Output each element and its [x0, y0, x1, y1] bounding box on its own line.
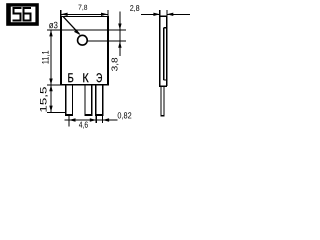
svg-text:15,5: 15,5	[38, 87, 48, 113]
dimension 4,6 / 0,82 line	[65, 119, 118, 121]
lead 3 (Э)	[96, 85, 103, 115]
svg-text:7,8: 7,8	[78, 3, 87, 12]
svg-text:0,82: 0,82	[117, 110, 131, 120]
lead 2 (К)	[85, 85, 92, 115]
lead bottom edges	[65, 114, 73, 116]
dimension 7,8 extension lines	[60, 10, 62, 16]
svg-text:Б: Б	[67, 70, 73, 85]
lead3 edge extensions below	[95, 115, 97, 123]
page number plate "56"	[6, 3, 39, 26]
side view lead	[161, 86, 164, 116]
svg-text:ø3: ø3	[49, 19, 58, 30]
package body front view	[60, 16, 109, 86]
package bottom edge over leads	[60, 84, 109, 86]
dimension 15,5 line	[50, 85, 52, 112]
lead1 center extension below	[68, 115, 70, 126]
side view inner step line	[164, 28, 167, 80]
tab boundary line across body (extended both sides)	[47, 29, 126, 31]
ø3 leader line with arrow to hole	[63, 16, 79, 34]
svg-text:3,8: 3,8	[109, 57, 119, 71]
svg-text:11,1: 11,1	[40, 50, 50, 64]
bottom edge extension line left	[47, 84, 61, 86]
svg-text:К: К	[82, 70, 89, 85]
lead end extension line	[47, 111, 66, 113]
dimension 7,8 line	[61, 14, 108, 16]
lead 1 (Б)	[66, 85, 73, 115]
dimension 2,8 extension lines	[159, 10, 161, 16]
svg-text:4,6: 4,6	[79, 120, 88, 130]
hole center extension line	[87, 40, 126, 42]
svg-text:Э: Э	[96, 70, 102, 85]
side view body	[159, 16, 167, 86]
dimension 2,8 line with outside arrows	[141, 14, 160, 16]
svg-text:2,8: 2,8	[130, 4, 140, 13]
mounting hole	[78, 35, 88, 45]
dimension 3,8 line	[119, 12, 121, 56]
dimension 11,1 line	[50, 30, 52, 85]
